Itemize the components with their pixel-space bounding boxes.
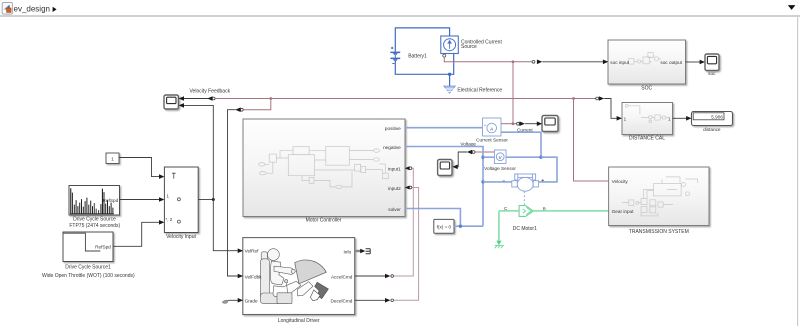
junction maroon at 573.5: [572, 97, 575, 100]
wire Voltage Sensor V output: [452, 142, 494, 170]
wire electrical positive: [405, 127, 483, 129]
wire to scope input 2: [179, 103, 214, 199]
wire solver line: [405, 209, 460, 227]
block Velocity Input multiport switch: [164, 167, 198, 240]
svg-text:DISTANCE CAL: DISTANCE CAL: [629, 135, 665, 141]
wire f(x) to junction: [454, 225, 483, 227]
wire Drive Cycle Source1 to port 2: [113, 220, 164, 246]
svg-text:5.906: 5.906: [711, 115, 723, 120]
svg-text:distance: distance: [703, 127, 721, 132]
wire Current Sensor I output: [501, 121, 542, 132]
svg-text:f(x) = 0: f(x) = 0: [437, 225, 452, 230]
svg-text:Velocity Feedback: Velocity Feedback: [190, 88, 231, 94]
svg-text:Drive Cycle Source: Drive Cycle Source: [73, 217, 116, 223]
svg-text:solver: solver: [388, 207, 401, 212]
subsystem SOC: [608, 40, 686, 91]
battery Battery1: [390, 47, 427, 64]
scope soc: [705, 54, 719, 76]
svg-text:Grade: Grade: [245, 299, 258, 304]
wire Grade to block: [228, 298, 243, 303]
wire green right R to Gear input: [533, 210, 608, 212]
wire branch to voltage sensor left: [483, 156, 494, 158]
sensor Current Sensor: [476, 118, 508, 142]
scope Velocity Feedback: [164, 88, 231, 109]
wire SOC output to scope: [686, 60, 706, 65]
svg-text:Battery1: Battery1: [408, 53, 427, 59]
solver configuration f(x)=0: [434, 219, 454, 233]
junction blue motor minus: [481, 180, 484, 183]
svg-text:positive: positive: [385, 126, 401, 131]
junction velocity output: [212, 198, 215, 201]
motor DC Motor1 shaft pentagon: [504, 206, 547, 233]
svg-text:SOC: SOC: [641, 85, 652, 91]
svg-text:Voltage Sensor: Voltage Sensor: [484, 166, 516, 171]
junction maroon at 270.8: [269, 97, 272, 100]
motor DC Motor1 symbol: [503, 174, 544, 205]
svg-text:soc input: soc input: [610, 60, 629, 65]
block Drive Cycle Source1: [42, 232, 135, 279]
svg-text:AccelCmd: AccelCmd: [331, 274, 353, 279]
svg-text:VelFdbk: VelFdbk: [245, 274, 263, 279]
toolbar breadcrumb bar: [0, 0, 800, 17]
wire Drive Cycle Source to port 1: [120, 197, 165, 202]
wire battery loop top: [395, 28, 449, 52]
junction blue solver: [459, 225, 462, 228]
svg-text:RefSpd: RefSpd: [95, 245, 111, 250]
wire maroon to SOC converter: [513, 60, 608, 65]
breadcrumb text ev_design: [14, 4, 57, 13]
svg-text:Source: Source: [461, 44, 477, 50]
block Drive Cycle Source: [69, 186, 121, 229]
scope Current scope: [542, 116, 558, 132]
wire maroon CCS control: [444, 57, 513, 62]
subsystem DISTANCE CAL: [622, 103, 673, 142]
svg-text:negative: negative: [383, 145, 401, 150]
subsystem TRANSMISSION SYSTEM: [609, 167, 709, 235]
wire Current Sensor out blue: [501, 132, 541, 157]
wire constant to Velocity Input control port: [119, 158, 164, 179]
svg-text:RefSpd: RefSpd: [103, 198, 119, 203]
wire Velocity Input output: [198, 199, 213, 201]
junction blue motor plus: [539, 156, 542, 159]
converter PS-Simulink before DISTANCE CAL: [596, 96, 622, 120]
subsystem Longitudinal Driver: [243, 238, 355, 324]
wire to VelRef: [213, 200, 243, 254]
ground Grade input glyph: [222, 300, 228, 303]
wire ground drop: [449, 74, 451, 86]
sensor Voltage Sensor: [484, 150, 516, 171]
wire DISTANCE CAL to display: [673, 116, 692, 121]
junction maroon sensor: [512, 122, 515, 125]
wire maroon vertical sensor to control: [512, 62, 514, 124]
wire battery loop bottom: [395, 54, 453, 75]
ground Electrical Reference: [444, 86, 503, 94]
wire DecelCmd output black: [355, 298, 394, 303]
right panel divider: [797, 17, 798, 326]
junction battery-ground: [448, 73, 451, 76]
wire to motor plus: [539, 157, 557, 182]
svg-text:*, 2: *, 2: [166, 217, 173, 222]
svg-text:Longitudinal Driver: Longitudinal Driver: [278, 318, 320, 324]
svg-text:Current Sensor: Current Sensor: [476, 137, 508, 142]
wire pink DecelCmd to input2: [394, 186, 419, 301]
svg-text:Info: Info: [343, 249, 351, 254]
svg-text:Velocity: Velocity: [612, 179, 629, 184]
svg-text:1: 1: [111, 157, 114, 162]
svg-text:soc output: soc output: [660, 60, 682, 65]
terminator on Info output: [366, 249, 371, 254]
wire physical velocity feedback main maroon: [215, 98, 595, 100]
junction maroon CCS: [512, 60, 515, 63]
svg-text:input2: input2: [388, 186, 401, 191]
model icon: [2, 3, 12, 15]
svg-text:Drive Cycle Source1: Drive Cycle Source1: [65, 264, 111, 270]
wire Info to terminator: [355, 249, 366, 253]
display distance: [692, 112, 733, 133]
panel dropdown arrow top right: [788, 5, 796, 10]
constant block value 1: [106, 153, 119, 164]
svg-text:Gear input: Gear input: [612, 209, 635, 214]
svg-text:ev_design: ev_design: [14, 4, 50, 13]
source Controlled Current Source: [441, 36, 503, 57]
wire maroon branch to TRANSMISSION Velocity: [574, 99, 609, 182]
svg-text:Motor Controller: Motor Controller: [306, 218, 342, 224]
svg-text:VelRef: VelRef: [245, 249, 260, 254]
junction blue voltage sensor left: [481, 156, 484, 159]
wire branch to motor minus: [483, 181, 512, 183]
svg-text:Velocity Input: Velocity Input: [166, 234, 196, 240]
svg-text:TRANSMISSION SYSTEM: TRANSMISSION SYSTEM: [629, 229, 689, 235]
svg-text:soc: soc: [708, 71, 716, 76]
scope Voltage scope: [438, 160, 452, 176]
wire Voltage Sensor right link: [506, 156, 541, 158]
svg-text:input1: input1: [388, 167, 401, 172]
wire pink AccelCmd to input1: [394, 166, 413, 276]
svg-text:DecelCmd: DecelCmd: [331, 299, 353, 304]
svg-text:Wide Open Throttle (WOT) (100: Wide Open Throttle (WOT) (100 seconds): [42, 273, 135, 279]
ground mechanical rotational reference: [495, 211, 504, 248]
converter PS-Simulink velocity feedback: [179, 96, 216, 101]
subsystem Motor Controller: [243, 119, 405, 224]
wire AccelCmd output black: [355, 274, 394, 279]
wire maroon branch to VelFdbk converter: [228, 99, 271, 279]
svg-text:Electrical Reference: Electrical Reference: [457, 88, 502, 94]
wire electrical negative: [405, 147, 483, 227]
wire green left C: [499, 210, 519, 212]
svg-text:FTP75 (2474 seconds): FTP75 (2474 seconds): [69, 223, 120, 229]
driver icon: [260, 249, 328, 304]
svg-text:DC Motor1: DC Motor1: [513, 226, 537, 232]
